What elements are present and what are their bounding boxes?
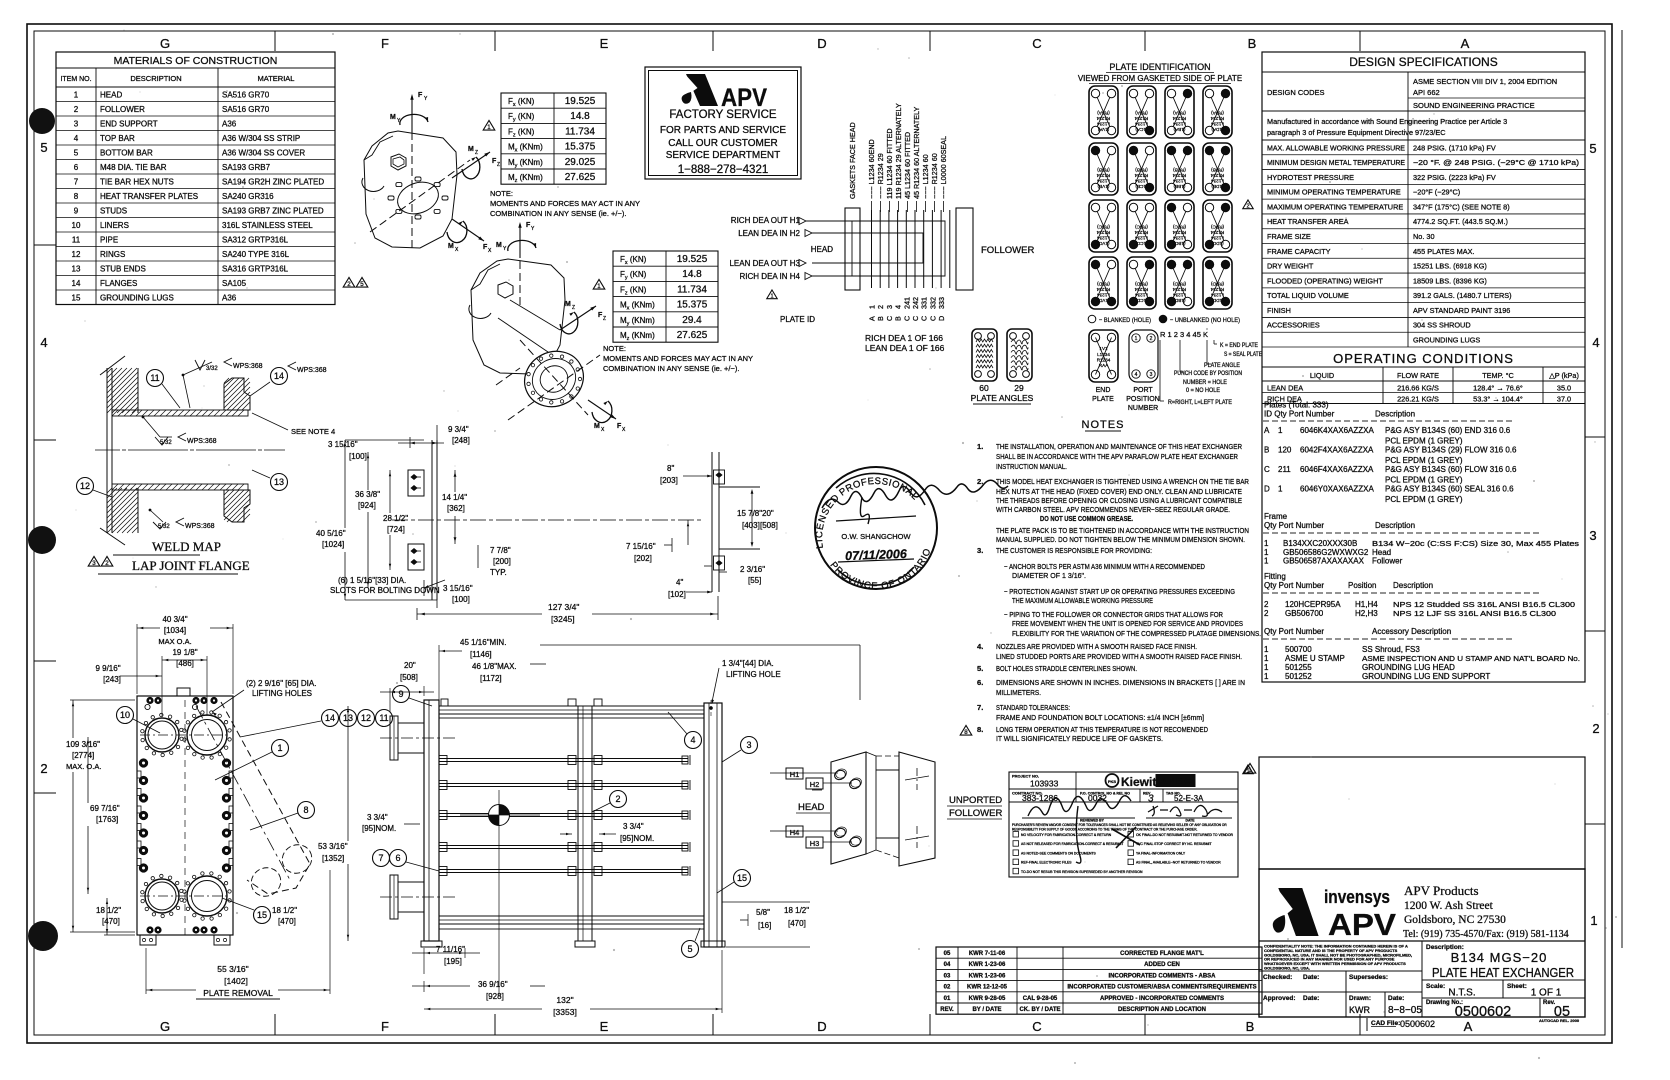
- svg-text:STANDARD TOLERANCES:: STANDARD TOLERANCES:: [996, 703, 1070, 712]
- svg-text:4: 4: [1592, 335, 1599, 350]
- svg-text:(1DB): (1DB): [1211, 184, 1223, 189]
- svg-text:LINERS: LINERS: [100, 221, 129, 230]
- svg-text:[243]: [243]: [103, 675, 121, 684]
- svg-text:15: 15: [737, 873, 747, 883]
- svg-text:IT WILL SIGNIFICATELY REDUCE L: IT WILL SIGNIFICATELY REDUCE LIFE OF GAS…: [996, 734, 1163, 743]
- svg-text:− PROTECTION AGAINST START UP: − PROTECTION AGAINST START UP OR OPERATI…: [1004, 587, 1235, 596]
- svg-text:A36: A36: [222, 120, 237, 129]
- svg-text:[55]: [55]: [748, 576, 761, 585]
- svg-text:Description: Description: [1393, 581, 1433, 590]
- flange upper: [224, 378, 250, 410]
- svg-text:MAX. ALLOWABLE WORKING PRESSUR: MAX. ALLOWABLE WORKING PRESSURE: [1267, 143, 1405, 152]
- warning triangle 1 near force table 1: [483, 120, 495, 131]
- svg-text:Z: Z: [603, 316, 606, 322]
- svg-text:RESPONSIBILITY FOR SUPPLY OF G: RESPONSIBILITY FOR SUPPLY OF GOODS ACCOR…: [1012, 828, 1197, 832]
- svg-text:C: C: [911, 316, 920, 321]
- svg-text:H3: H3: [810, 839, 820, 848]
- svg-text:KWR 9-28-05: KWR 9-28-05: [969, 996, 1006, 1002]
- svg-text:L1234: L1234: [1135, 236, 1148, 241]
- svg-text:1−888−278−4321: 1−888−278−4321: [678, 164, 769, 176]
- side view top carrying bar: [439, 706, 704, 714]
- head iso box: [831, 752, 866, 864]
- svg-text:OK FINAL-DO NOT RESUBMIT-NOT R: OK FINAL-DO NOT RESUBMIT-NOT RETURNED TO…: [1136, 833, 1234, 837]
- svg-text:331: 331: [920, 297, 929, 309]
- svg-text:8": 8": [667, 464, 674, 473]
- svg-text:FINISH: FINISH: [1267, 306, 1291, 315]
- svg-text:PORT: PORT: [1133, 387, 1153, 394]
- zone ticks bottom: [274, 1014, 276, 1035]
- svg-text:L1234: L1234: [1097, 236, 1110, 241]
- svg-text:VIEWED FROM GASKETED SIDE OF P: VIEWED FROM GASKETED SIDE OF PLATE: [1078, 74, 1242, 83]
- svg-text:L1234: L1234: [1211, 236, 1224, 241]
- svg-text:LEAN DEA OUT H3: LEAN DEA OUT H3: [729, 259, 800, 268]
- svg-text:[1024]: [1024]: [322, 540, 344, 549]
- svg-text:[1172]: [1172]: [480, 674, 502, 683]
- svg-text:(RDA): (RDA): [1211, 111, 1224, 116]
- foundation right foot: [711, 452, 713, 592]
- svg-text:SS Shroud, FS3: SS Shroud, FS3: [1362, 645, 1420, 654]
- svg-text:333: 333: [937, 297, 946, 309]
- svg-text:REV.: REV.: [940, 1007, 954, 1013]
- materials of construction table: [56, 52, 335, 305]
- svg-text:[924]: [924]: [358, 501, 376, 510]
- svg-text:7 15/16": 7 15/16": [626, 542, 656, 551]
- svg-text:14.8: 14.8: [570, 111, 590, 122]
- svg-text:(2) 2 9/16" [65] DIA.: (2) 2 9/16" [65] DIA.: [246, 679, 316, 688]
- svg-text:F: F: [381, 1019, 389, 1034]
- svg-text:15.375: 15.375: [565, 142, 596, 153]
- side view balloons: [393, 686, 410, 703]
- svg-text:THE THREADS BEFORE OPENING OR: THE THREADS BEFORE OPENING OR CLOSING US…: [996, 496, 1242, 505]
- front view top studs: [147, 697, 153, 703]
- side view lower nozzle: [390, 875, 398, 919]
- svg-text:PLATE HEAT EXCHANGER: PLATE HEAT EXCHANGER: [1432, 966, 1574, 980]
- svg-text:PKS: PKS: [1108, 779, 1117, 784]
- svg-text:[2774]: [2774]: [72, 751, 94, 760]
- zone ticks top: [274, 31, 276, 51]
- svg-text:B: B: [876, 316, 885, 321]
- svg-text:WELD MAP: WELD MAP: [152, 539, 221, 554]
- svg-text:45 R1234 60 ALTERNATELY: 45 R1234 60 ALTERNATELY: [912, 107, 921, 199]
- svg-text:C: C: [1032, 36, 1041, 51]
- svg-text:(1VD): (1VD): [1097, 298, 1109, 303]
- svg-text:Qty Port Number: Qty Port Number: [1264, 627, 1324, 636]
- svg-text:5/8": 5/8": [756, 908, 770, 917]
- svg-text:SA312 GRTP316L: SA312 GRTP316L: [222, 236, 289, 245]
- svg-text:HYDROTEST PRESSURE: HYDROTEST PRESSURE: [1267, 173, 1354, 182]
- svg-text:−−− R1234 29: −−− R1234 29: [876, 153, 885, 199]
- svg-text:WPS:368: WPS:368: [185, 523, 215, 530]
- svg-text:LAP JOINT FLANGE: LAP JOINT FLANGE: [132, 558, 250, 573]
- svg-text:BY / DATE: BY / DATE: [972, 1007, 1001, 1013]
- svg-text:13: 13: [274, 477, 284, 487]
- balloon 13 weld: [271, 474, 288, 491]
- svg-text:CAD File:: CAD File:: [1371, 1020, 1400, 1027]
- punch hole bottom: [28, 921, 58, 951]
- svg-text:RAA: RAA: [1099, 363, 1109, 368]
- plate angle icon 60: [972, 329, 997, 381]
- svg-text:TOP BAR: TOP BAR: [100, 134, 135, 143]
- svg-text:19 1/8": 19 1/8": [172, 648, 197, 657]
- svg-text:ITEM NO.: ITEM NO.: [60, 76, 91, 83]
- svg-text:R1234: R1234: [1172, 173, 1186, 178]
- warning triangle 1 near force table 2: [593, 279, 605, 290]
- svg-text:RICH DEA 1 OF 166: RICH DEA 1 OF 166: [865, 333, 943, 343]
- svg-text:GROUNDING LUGS: GROUNDING LUGS: [100, 294, 174, 303]
- svg-text:4: 4: [894, 305, 903, 309]
- svg-text:6046F4XAX6AZZXA: 6046F4XAX6AZZXA: [1300, 465, 1374, 474]
- svg-text:D: D: [1264, 485, 1270, 494]
- svg-text:PLATE ID: PLATE ID: [780, 315, 815, 324]
- svg-text:2 3/16": 2 3/16": [740, 565, 765, 574]
- svg-text:BOLT HOLES STRADDLE CENTERLINE: BOLT HOLES STRADDLE CENTERLINES SHOWN.: [996, 664, 1137, 673]
- svg-text:R1234: R1234: [1096, 230, 1110, 235]
- svg-text:M: M: [565, 301, 571, 308]
- svg-text:15: 15: [257, 910, 267, 920]
- svg-text:R1234: R1234: [1210, 173, 1224, 178]
- svg-text:FRAME AND FOUNDATION BOLT LOCA: FRAME AND FOUNDATION BOLT LOCATIONS: ±1/…: [996, 713, 1204, 722]
- svg-text:(1BC): (1BC): [1173, 241, 1185, 246]
- svg-text:1 3/4"[44] DIA.: 1 3/4"[44] DIA.: [722, 659, 774, 668]
- svg-text:NOTES: NOTES: [1082, 419, 1125, 431]
- svg-text:POSITION: POSITION: [1126, 396, 1159, 403]
- svg-text:2: 2: [876, 305, 885, 309]
- svg-text:KWR 1-23-06: KWR 1-23-06: [969, 973, 1006, 979]
- svg-text:4: 4: [74, 134, 79, 143]
- title block grid lines: [1421, 941, 1423, 1017]
- svg-text:(1BA): (1BA): [1173, 127, 1185, 132]
- svg-text:Z: Z: [572, 305, 575, 311]
- svg-text:No. 30: No. 30: [1413, 232, 1435, 241]
- svg-text:ID Qty Port Number: ID Qty Port Number: [1264, 410, 1335, 419]
- svg-text:R 1 2 3 4 45 K: R 1 2 3 4 45 K: [1160, 330, 1208, 339]
- svg-text:6.: 6.: [977, 678, 983, 687]
- svg-text:[95]NOM.: [95]NOM.: [362, 824, 396, 833]
- svg-text:HEAT TRANSFER PLATES: HEAT TRANSFER PLATES: [100, 192, 198, 201]
- svg-text:INCORPORATED COMMENTS - ABSA: INCORPORATED COMMENTS - ABSA: [1109, 973, 1217, 979]
- svg-text:2: 2: [1264, 609, 1269, 618]
- svg-text:B: B: [1246, 1019, 1255, 1034]
- pipe upper wall: [112, 410, 248, 416]
- svg-text:19.525: 19.525: [565, 96, 596, 107]
- svg-text:SERVICE DEPARTMENT: SERVICE DEPARTMENT: [666, 150, 780, 161]
- svg-text:103933: 103933: [1030, 779, 1059, 789]
- svg-text:L1234: L1234: [1097, 352, 1110, 357]
- svg-text:11: 11: [72, 236, 81, 245]
- svg-text:[508]: [508]: [400, 673, 418, 682]
- svg-text:2: 2: [74, 105, 79, 114]
- svg-text:(1CB): (1CB): [1135, 184, 1147, 189]
- svg-text:C: C: [885, 316, 894, 321]
- svg-text:501255: 501255: [1285, 663, 1312, 672]
- head bar: [845, 208, 860, 290]
- svg-text:B: B: [1248, 36, 1257, 51]
- svg-text:A: A: [1264, 426, 1270, 435]
- svg-text:ASME SECTION VIII DIV 1, 2004: ASME SECTION VIII DIV 1, 2004 EDITION: [1413, 77, 1557, 86]
- svg-text:SA193 GRB7 ZINC PLATED: SA193 GRB7 ZINC PLATED: [222, 207, 324, 216]
- svg-text:PCL EPDM (1 GREY): PCL EPDM (1 GREY): [1385, 456, 1463, 465]
- svg-text:APV: APV: [1328, 907, 1396, 942]
- svg-text:(1CC): (1CC): [1135, 241, 1148, 246]
- follower bar: [956, 208, 973, 290]
- head iso ports: [833, 769, 846, 781]
- svg-text:0500602: 0500602: [1455, 1004, 1511, 1020]
- svg-text:PCL EPDM (1 GREY): PCL EPDM (1 GREY): [1385, 476, 1463, 485]
- balloon 11 weld: [147, 370, 164, 387]
- svg-text:FLOODED (OPERATING) WEIGHT: FLOODED (OPERATING) WEIGHT: [1267, 276, 1383, 285]
- svg-text:1: 1: [1278, 485, 1283, 494]
- balloons 14 13 12 11 chain: [322, 710, 339, 727]
- svg-text:2.: 2.: [977, 477, 983, 486]
- svg-text:3 15/16": 3 15/16": [328, 440, 358, 449]
- design specifications table: [1262, 52, 1585, 682]
- svg-text:WPS:368: WPS:368: [297, 367, 327, 374]
- svg-text:WPS:368: WPS:368: [187, 438, 217, 445]
- svg-text:END SUPPORT: END SUPPORT: [100, 120, 158, 129]
- warning triangle right of grid: [1243, 200, 1253, 210]
- svg-text:(RBA): (RBA): [1135, 111, 1148, 116]
- svg-text:REVIEWED BY: REVIEWED BY: [1080, 819, 1104, 823]
- svg-text:241: 241: [902, 297, 911, 309]
- svg-text:R1234: R1234: [1096, 287, 1110, 292]
- svg-text:211: 211: [1278, 465, 1291, 474]
- svg-text:Description: Description: [1375, 521, 1415, 530]
- svg-text:WPS:368: WPS:368: [233, 363, 263, 370]
- port position icon: [1129, 330, 1158, 382]
- svg-text:−−− L1234 60END: −−− L1234 60END: [867, 139, 876, 199]
- svg-text:0 = NO HOLE: 0 = NO HOLE: [1186, 388, 1220, 394]
- svg-text:PLATE REMOVAL: PLATE REMOVAL: [203, 988, 273, 998]
- svg-text:−−− L1234 60: −−− L1234 60: [921, 154, 930, 199]
- svg-text:MOMENTS AND FORCES MAY ACT IN: MOMENTS AND FORCES MAY ACT IN ANY: [490, 199, 640, 208]
- svg-text:4774.2 SQ.FT. (443.5 SQ.M.): 4774.2 SQ.FT. (443.5 SQ.M.): [1413, 217, 1508, 226]
- svg-text:DESIGN CODES: DESIGN CODES: [1267, 88, 1325, 97]
- svg-text:PIPE: PIPE: [100, 236, 118, 245]
- svg-text:THE PLATE PACK IS TO BE TIGHTE: THE PLATE PACK IS TO BE TIGHTENED IN ACC…: [996, 526, 1249, 535]
- Mx arrow sketch1: [447, 221, 467, 243]
- svg-text:APV Products: APV Products: [1404, 883, 1479, 898]
- svg-text:9 9/16": 9 9/16": [95, 664, 120, 673]
- svg-text:SA105: SA105: [222, 279, 247, 288]
- title block outer: [1259, 869, 1585, 1017]
- svg-text:LEAN DEA: LEAN DEA: [1267, 384, 1303, 393]
- warning triangle below port labels: [767, 290, 777, 300]
- svg-text:[470]: [470]: [102, 917, 120, 926]
- svg-text:[1402]: [1402]: [224, 976, 248, 986]
- svg-text:3.: 3.: [977, 546, 983, 555]
- svg-text:[1146]: [1146]: [470, 650, 492, 659]
- svg-text:[95]NOM.: [95]NOM.: [620, 834, 654, 843]
- svg-text:DATE: DATE: [1186, 819, 1196, 823]
- svg-text:L1234: L1234: [1173, 122, 1186, 127]
- svg-text:10: 10: [72, 221, 81, 230]
- svg-text:B134XXC20XXX30B: B134XXC20XXX30B: [1283, 539, 1357, 548]
- svg-text:(1VC): (1VC): [1097, 241, 1109, 246]
- svg-text:DESCRIPTION: DESCRIPTION: [130, 74, 181, 83]
- svg-text:PCL EPDM (1 GREY): PCL EPDM (1 GREY): [1385, 495, 1463, 504]
- My arrow sketch1: [400, 114, 428, 125]
- svg-text:YA FINAL-INFORMATION ONLY: YA FINAL-INFORMATION ONLY: [1136, 851, 1186, 855]
- svg-text:APV STANDARD PAINT 3196: APV STANDARD PAINT 3196: [1413, 306, 1510, 315]
- Fy arrow sketch2: [519, 224, 521, 258]
- svg-text:KWR 1-23-06: KWR 1-23-06: [969, 962, 1006, 968]
- svg-text:D: D: [817, 1019, 826, 1034]
- svg-text:6: 6: [395, 853, 400, 863]
- svg-text:(RAB): (RAB): [1097, 168, 1110, 173]
- svg-text:LEAN DEA IN H2: LEAN DEA IN H2: [738, 229, 800, 238]
- foundation plan centerline: [392, 519, 408, 521]
- punch hole middle: [28, 526, 56, 554]
- svg-text:R1234: R1234: [1210, 287, 1224, 292]
- warning triangles 3 2: [88, 556, 100, 567]
- svg-text:14 1/4": 14 1/4": [442, 493, 467, 502]
- svg-text:L1234: L1234: [1135, 122, 1148, 127]
- svg-text:(1DC): (1DC): [1211, 241, 1224, 246]
- svg-text:REF-FINAL ELECTRONIC FILES: REF-FINAL ELECTRONIC FILES: [1021, 861, 1072, 865]
- front view bottom studs: [147, 927, 153, 933]
- svg-text:36 3/8": 36 3/8": [355, 490, 380, 499]
- svg-text:SA316 GRTP316L: SA316 GRTP316L: [222, 265, 289, 274]
- svg-text:C: C: [902, 316, 911, 321]
- svg-text:[928]: [928]: [486, 992, 504, 1001]
- svg-text:Qty Port Number: Qty Port Number: [1264, 521, 1324, 530]
- svg-text:52-E-3A: 52-E-3A: [1174, 794, 1204, 803]
- svg-text:CALL OUR CUSTOMER: CALL OUR CUSTOMER: [668, 138, 777, 149]
- swing gate pivot line: [196, 706, 290, 880]
- svg-text:13: 13: [72, 265, 81, 274]
- svg-text:C: C: [928, 316, 937, 321]
- svg-text:−20 °F. @ 248 PSIG. (−29°C @ 1: −20 °F. @ 248 PSIG. (−29°C @ 1710 kPa): [1413, 158, 1579, 167]
- svg-text:4.: 4.: [977, 642, 983, 651]
- svg-text:[1763]: [1763]: [96, 815, 118, 824]
- svg-text:−20°F (−29°C): −20°F (−29°C): [1413, 188, 1460, 197]
- side view mid post: [578, 706, 592, 941]
- svg-text:(1BB): (1BB): [1173, 184, 1185, 189]
- svg-text:MANUAL SUPPLIED. DO NOT TIGHT: MANUAL SUPPLIED. DO NOT TIGHTEN BELOW TH…: [996, 535, 1245, 544]
- svg-text:(1DA): (1DA): [1211, 127, 1223, 132]
- svg-text:A36 W/304 SS COVER: A36 W/304 SS COVER: [222, 149, 305, 158]
- center of gravity symbol: [489, 805, 510, 826]
- svg-text:C: C: [1032, 1019, 1041, 1034]
- svg-text:paragraph 3 of Pressure Equipm: paragraph 3 of Pressure Equipment Direct…: [1267, 128, 1445, 137]
- svg-text:AS NOTED-SEE COMMENTS ON DOCUM: AS NOTED-SEE COMMENTS ON DOCUMENTS: [1021, 851, 1097, 855]
- port arrows into stack: [799, 218, 806, 225]
- svg-text:SA516 GR70: SA516 GR70: [222, 105, 270, 114]
- svg-text:3: 3: [1589, 528, 1596, 543]
- svg-text:SA240 TYPE 316L: SA240 TYPE 316L: [222, 250, 290, 259]
- Fx arrow sketch1: [452, 219, 484, 241]
- svg-text:05: 05: [944, 951, 951, 957]
- svg-text:[203]: [203]: [660, 476, 678, 485]
- svg-text:CORRECTED FLANGE MAT'L: CORRECTED FLANGE MAT'L: [1120, 951, 1204, 957]
- svg-text:SLOTS FOR BOLTING DOWN: SLOTS FOR BOLTING DOWN: [330, 586, 440, 595]
- svg-text:CK. BY / DATE: CK. BY / DATE: [1019, 1007, 1060, 1013]
- svg-text:LIFTING HOLE: LIFTING HOLE: [726, 670, 781, 679]
- svg-text:27.625: 27.625: [677, 330, 708, 341]
- foundation plan head face lines: [431, 440, 433, 600]
- svg-text:DIMENSIONS ARE SHOWN IN INCHES: DIMENSIONS ARE SHOWN IN INCHES. DIMENSIO…: [996, 678, 1245, 687]
- svg-text:Frame: Frame: [1264, 512, 1288, 521]
- svg-text:(1DD): (1DD): [1211, 298, 1224, 303]
- svg-text:ASME U STAMP: ASME U STAMP: [1285, 654, 1345, 663]
- front view top lug: [177, 688, 190, 696]
- svg-text:Supersedes:: Supersedes:: [1349, 974, 1388, 981]
- svg-text:11.734: 11.734: [677, 284, 707, 295]
- svg-text:3: 3: [885, 305, 894, 309]
- svg-text:GB506700: GB506700: [1285, 609, 1324, 618]
- svg-text:18 1/2": 18 1/2": [784, 906, 809, 915]
- svg-text:347°F (175°C) (SEE NOTE 8): 347°F (175°C) (SEE NOTE 8): [1413, 202, 1510, 211]
- svg-text:[100]: [100]: [349, 452, 367, 461]
- svg-text:27.625: 27.625: [565, 172, 596, 183]
- svg-text:RICH DEA IN H4: RICH DEA IN H4: [740, 272, 801, 281]
- svg-text:1: 1: [1590, 913, 1597, 928]
- svg-text:ADDED CEN: ADDED CEN: [1144, 962, 1180, 968]
- svg-text:Date:: Date:: [1303, 995, 1319, 1002]
- svg-text:(RDC): (RDC): [1211, 225, 1224, 230]
- svg-text:PLATE ANGLES: PLATE ANGLES: [971, 393, 1034, 403]
- svg-text:8.: 8.: [977, 725, 983, 734]
- svg-text:COMBINATION IN ANY SENSE (ie.: COMBINATION IN ANY SENSE (ie. +/−).: [603, 364, 739, 373]
- svg-text:HEAD: HEAD: [811, 245, 833, 254]
- svg-text:8−8−05: 8−8−05: [1388, 1005, 1422, 1016]
- svg-text:(1CA): (1CA): [1135, 127, 1147, 132]
- svg-text:(RBB): (RBB): [1135, 168, 1148, 173]
- svg-text:NO VELOCITY FOR FABRICATION-CO: NO VELOCITY FOR FABRICATION-CORRECT & RE…: [1021, 833, 1112, 837]
- isometric head sketch 2: [471, 259, 565, 374]
- weld symbol mid: [142, 416, 145, 419]
- cad file note: [1366, 1018, 1368, 1031]
- notch cut sketch1: [362, 178, 384, 191]
- svg-text:CAL 9-28-05: CAL 9-28-05: [1023, 996, 1058, 1002]
- port flow rectangles: [806, 221, 945, 276]
- isometric head sketch 1: [364, 131, 457, 248]
- svg-text:M: M: [594, 423, 600, 430]
- svg-text:H1: H1: [790, 770, 800, 779]
- svg-text:KWR: KWR: [1349, 1005, 1370, 1015]
- svg-text:36 9/16": 36 9/16": [478, 980, 508, 989]
- svg-text:6046Y0XAX6AZZXA: 6046Y0XAX6AZZXA: [1300, 485, 1374, 494]
- svg-text:216.66 KG/S: 216.66 KG/S: [1397, 384, 1439, 393]
- svg-text:THE MAXIMUM ALLOWABLE WORKING: THE MAXIMUM ALLOWABLE WORKING PRESSURE: [1012, 596, 1153, 605]
- svg-text:NOTE:: NOTE:: [603, 344, 626, 353]
- svg-text:4: 4: [40, 335, 47, 350]
- svg-text:[16]: [16]: [758, 921, 771, 930]
- svg-text:3: 3: [74, 120, 79, 129]
- svg-text:11.734: 11.734: [565, 126, 595, 137]
- svg-text:DESCRIPTION AND LOCATION: DESCRIPTION AND LOCATION: [1118, 1007, 1206, 1013]
- lifting hole in end support: [709, 706, 713, 710]
- svg-text:L1234: L1234: [1173, 179, 1186, 184]
- svg-text:GASKETS FACE HEAD: GASKETS FACE HEAD: [848, 122, 857, 199]
- paper edge line right: [1621, 30, 1623, 948]
- svg-text:SOUND ENGINEERING PRACTICE: SOUND ENGINEERING PRACTICE: [1413, 101, 1535, 110]
- svg-text:1: 1: [1264, 672, 1269, 681]
- svg-text:A: A: [1461, 36, 1470, 51]
- svg-text:D: D: [937, 316, 946, 321]
- weld map section view: [106, 368, 108, 533]
- svg-text:− BLANKED (HOLE): − BLANKED (HOLE): [1099, 317, 1151, 324]
- svg-text:501252: 501252: [1285, 672, 1312, 681]
- svg-text:LEAN DEA 1 OF 166: LEAN DEA 1 OF 166: [865, 343, 945, 353]
- svg-text:55 3/16": 55 3/16": [217, 964, 248, 974]
- svg-text:455 PLATES MAX.: 455 PLATES MAX.: [1413, 247, 1475, 256]
- svg-text:45 L1234 60 FITTED: 45 L1234 60 FITTED: [903, 132, 912, 199]
- svg-text:248 PSIG. (1710 kPa) FV: 248 PSIG. (1710 kPa) FV: [1413, 143, 1496, 152]
- svg-text:MAXIMUM OPERATING TEMPERATURE: MAXIMUM OPERATING TEMPERATURE: [1267, 202, 1403, 211]
- svg-text:18509 LBS. (8396 KG): 18509 LBS. (8396 KG): [1413, 276, 1487, 285]
- svg-text:TEMP. °C: TEMP. °C: [1482, 371, 1514, 380]
